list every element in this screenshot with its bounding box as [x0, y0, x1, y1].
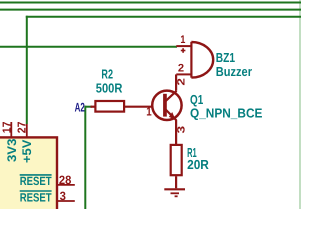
wire net A2 horizontal [85, 106, 93, 108]
wire net buzzer horizontal [0, 46, 177, 48]
svg-text:RESET: RESET [20, 191, 52, 205]
ground bar 3 [175, 195, 178, 197]
svg-text:BZ1: BZ1 [216, 50, 235, 65]
svg-text:28: 28 [59, 173, 72, 187]
resistor R1 pin 2 lead to ground [175, 176, 177, 188]
transistor Q1 collector diagonal [166, 91, 177, 101]
wire net +5V vertical to pin 27 [26, 16, 28, 124]
svg-text:3: 3 [60, 189, 67, 203]
svg-text:3V3: 3V3 [5, 139, 19, 162]
svg-text:27: 27 [16, 122, 28, 134]
transistor Q1 pin 2 collector stub [175, 74, 177, 90]
resistor R2 [91, 101, 153, 112]
resistor R1 body [171, 145, 182, 175]
ground [164, 189, 185, 196]
frame right edge [299, 0, 301, 209]
svg-text:A2: A2 [75, 101, 85, 115]
resistor R2 body [95, 101, 124, 112]
IC pin 27 stub [26, 124, 28, 137]
transistor Q1 emitter diagonal [166, 109, 177, 120]
transistor Q1 emitter arrow [169, 112, 176, 120]
buzzer BZ1 flat side [190, 42, 192, 78]
buzzer BZ1 dome arc [191, 42, 213, 78]
IC pin 28 name overline [20, 174, 52, 176]
svg-text:2: 2 [175, 78, 187, 86]
svg-text:20R: 20R [187, 157, 209, 172]
transistor Q1 body circle [152, 91, 181, 120]
wire net top 1 [0, 2, 301, 4]
transistor Q1 [152, 74, 181, 144]
svg-text:RESET: RESET [20, 174, 52, 188]
svg-text:Buzzer: Buzzer [216, 64, 252, 79]
transistor Q1 pin 3 emitter stub [175, 120, 177, 144]
IC U? (microcontroller, partial) [0, 137, 57, 217]
wire net top 2 [0, 9, 301, 11]
buzzer BZ1 plus polarity mark [181, 50, 186, 52]
buzzer BZ1 pin 2 stub [176, 73, 191, 75]
IC pin 17 stub [10, 122, 12, 137]
ground bar 2 [171, 192, 180, 194]
IC pin 3 name overline [20, 190, 52, 192]
buzzer BZ1 pin 1 stub [176, 45, 191, 47]
svg-text:Q_NPN_BCE: Q_NPN_BCE [190, 105, 263, 120]
buzzer BZ1 [176, 42, 213, 78]
resistor R2 pin 1 lead [91, 106, 96, 108]
svg-text:+5V: +5V [20, 139, 34, 163]
IC pin 3 stub [57, 200, 75, 202]
svg-text:17: 17 [1, 122, 13, 134]
svg-text:2: 2 [178, 63, 184, 75]
IC pin 28 stub [57, 184, 75, 186]
resistor R1 [171, 145, 182, 188]
resistor R2 pin 2 lead to Q1 base [124, 106, 153, 108]
svg-text:500R: 500R [96, 80, 123, 95]
transistor Q1 base bar [163, 94, 167, 117]
svg-text:3: 3 [175, 126, 187, 134]
svg-text:1: 1 [146, 105, 152, 119]
svg-text:1: 1 [180, 34, 185, 46]
wire net +5V horizontal [26, 16, 301, 18]
wire net A2 vertical [84, 106, 86, 209]
ground bar 1 [164, 188, 185, 190]
